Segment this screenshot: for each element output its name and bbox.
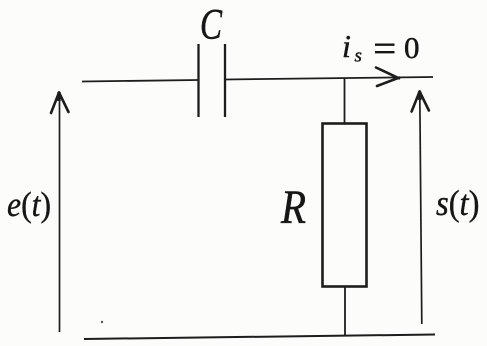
label is = 0 <box>342 28 420 67</box>
svg-text:s: s <box>355 46 362 67</box>
voltage arrow s(t) <box>412 92 429 325</box>
svg-text:i: i <box>342 28 351 64</box>
svg-text:e(t): e(t) <box>7 185 51 224</box>
speck dot <box>101 321 103 323</box>
wire resistor top lead <box>344 78 346 124</box>
svg-text:C: C <box>200 2 223 49</box>
wire resistor bottom lead <box>344 287 346 337</box>
svg-text:R: R <box>280 181 306 234</box>
voltage arrow e(t) <box>51 92 69 332</box>
current arrowhead is <box>376 68 399 87</box>
wire top-right segment <box>225 77 433 80</box>
resistor R body <box>323 124 367 287</box>
wire top-left segment <box>82 80 198 82</box>
svg-text:s(t): s(t) <box>436 183 480 223</box>
capacitor C left plate <box>197 44 199 117</box>
capacitor C right plate <box>224 44 226 117</box>
svg-text:0: 0 <box>404 30 420 65</box>
wire bottom <box>84 335 435 340</box>
